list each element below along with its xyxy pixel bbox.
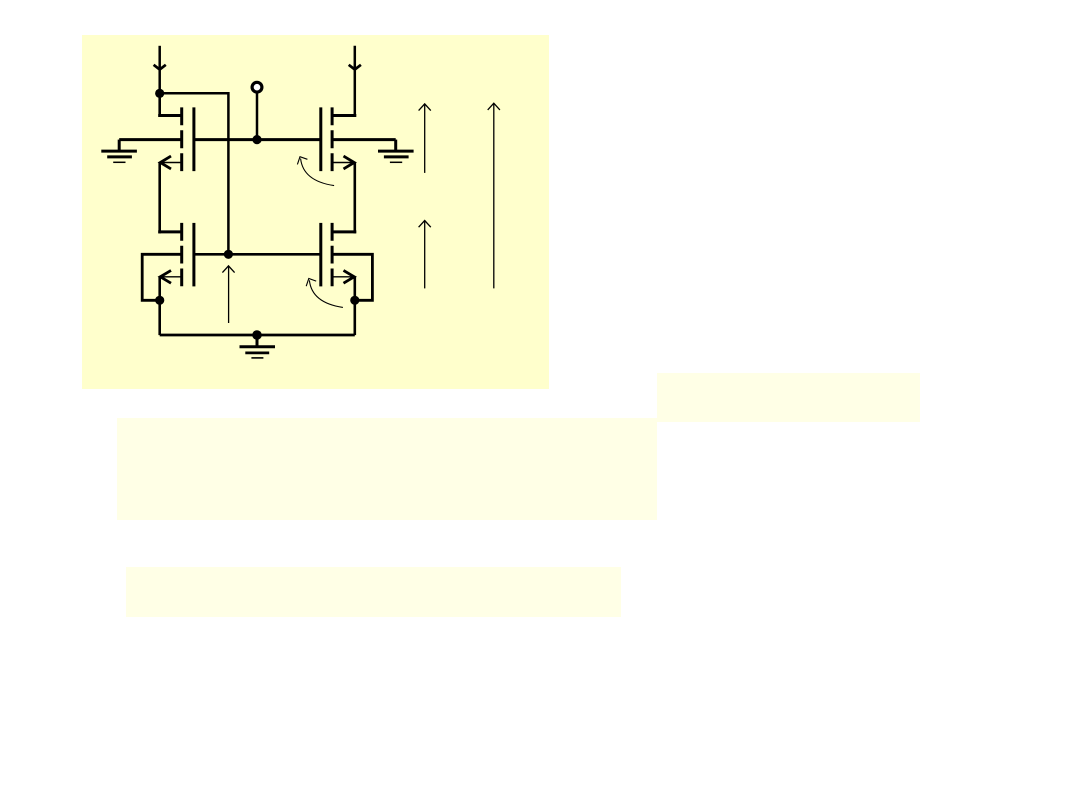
bottom rail node dot: [252, 330, 262, 340]
bulk wire M4 to source: [332, 254, 372, 300]
left ground: [101, 140, 137, 163]
output node dot on gate line: [252, 135, 261, 144]
wire M2 source down to M4 drain: [353, 163, 356, 234]
wire node A down to M1 drain: [158, 93, 161, 117]
wire M1 source down to M3 drain: [158, 163, 161, 234]
tail current annotation arrow (middle, pointing up): [222, 266, 234, 323]
M3 source junction dot: [155, 296, 164, 305]
input current arrow I1 (top left, pointing down): [154, 46, 166, 94]
lower gate line between M3 and M4: [194, 253, 321, 256]
transistor M4 (bottom right nMOS, mirrored): [321, 223, 357, 287]
bulk wire M2 to right ground: [332, 138, 396, 141]
highlight box bottom: [126, 567, 621, 617]
current arrow i1 (right side upper, pointing up): [419, 104, 431, 173]
node A junction dot (drain of M1): [155, 89, 164, 98]
wire from node A to lower gate node: [160, 93, 229, 254]
M4 source junction dot: [350, 296, 359, 305]
output wire down to gate line: [256, 92, 259, 140]
bulk wire M1 to left ground: [119, 138, 182, 141]
curved arrow annotation near M2: [297, 157, 334, 186]
curved arrow annotation near M4: [306, 279, 343, 308]
transistor M3 (bottom left nMOS): [158, 223, 194, 287]
bulk wire M3 to source: [142, 254, 182, 300]
highlight box upper right: [657, 373, 920, 422]
lower gate node dot: [224, 250, 233, 259]
highlight box middle left: [117, 418, 657, 520]
input current arrow I2 (top right, pointing down): [349, 46, 361, 116]
transistor M1 (top left nMOS): [158, 107, 194, 171]
output current arrow (far right, long, pointing up): [488, 103, 500, 288]
wire M3 source down to rail: [158, 277, 161, 335]
current arrow i2 (right side lower, pointing up): [419, 221, 431, 289]
wire M4 source down to rail: [353, 277, 356, 335]
right ground: [378, 140, 414, 163]
background panel (pale yellow schematic box): [82, 35, 549, 389]
bottom ground: [240, 335, 276, 358]
output terminal circle: [252, 82, 262, 92]
bottom source rail: [160, 334, 355, 337]
upper gate line between M1 and M2: [194, 138, 321, 141]
transistor M2 (top right nMOS, mirrored): [321, 107, 357, 171]
